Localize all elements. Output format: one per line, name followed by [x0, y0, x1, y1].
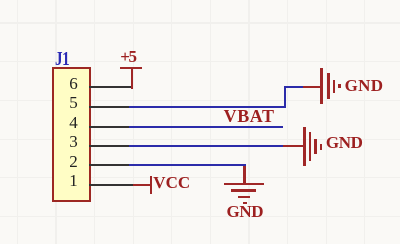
wire pin2 corner	[243, 164, 245, 169]
wire pin4 net VBAT	[129, 126, 283, 128]
ground GND3 label	[227, 203, 264, 220]
ground GND2 label	[326, 134, 363, 151]
wire pin2 horizontal	[129, 164, 246, 166]
pin 2 wire	[89, 164, 131, 166]
ground GND2 bar3	[314, 139, 316, 155]
ground GND2 bar1	[303, 127, 305, 166]
ground GND3 bar4	[243, 202, 247, 204]
ground GND3 bar1	[224, 183, 264, 185]
wire pin5 to GND1	[284, 86, 304, 88]
wire pin5 horizontal	[129, 106, 286, 108]
ground GND1 bar4	[338, 84, 340, 88]
power label +5	[120, 48, 135, 65]
power VCC lead	[133, 184, 150, 186]
pin 1 number	[69, 172, 78, 189]
power VCC bar	[150, 176, 152, 194]
ground GND1 lead	[303, 86, 321, 88]
net label VBAT	[224, 107, 275, 125]
ground GND3 bar3	[238, 196, 250, 198]
ground GND2 bar2	[309, 132, 311, 161]
pin 5 number	[69, 94, 78, 111]
pin 6 wire	[89, 86, 132, 88]
pin 2 number	[69, 153, 78, 170]
pin 4 number	[69, 114, 78, 131]
ground GND2 lead	[283, 145, 304, 147]
ground GND1 label	[345, 77, 384, 94]
power symbol +5 stem	[131, 69, 133, 89]
ground GND1 bar3	[333, 80, 335, 93]
pin 5 wire	[89, 106, 131, 108]
ground GND3 bar2	[231, 189, 257, 191]
ground GND1 bar1	[320, 68, 322, 104]
power VCC label	[153, 174, 190, 191]
pin 6 number	[69, 75, 78, 92]
ground GND2 bar4	[320, 144, 322, 150]
ground GND1 bar2	[327, 73, 329, 99]
refdes label J1	[55, 49, 69, 69]
wire pin3	[129, 145, 283, 147]
connector J1 body	[52, 67, 91, 202]
wire pin5 vertical riser	[284, 86, 286, 108]
pin 1 wire	[89, 184, 133, 186]
pin 3 wire	[89, 145, 131, 147]
ground GND3 stem	[243, 166, 245, 183]
pin 3 number	[69, 133, 78, 150]
pin 4 wire	[89, 126, 131, 128]
power symbol +5 bar	[120, 67, 142, 69]
